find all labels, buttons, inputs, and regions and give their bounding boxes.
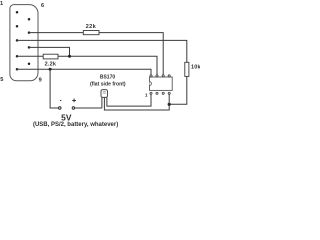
junction dot w3/w4 [68,55,71,58]
pin 6 dot [28,18,31,21]
wire junction to IC bottom pin 4 [168,95,170,105]
U1 pin 3 circle [162,92,164,94]
plus sign [72,99,76,103]
resistor R2 2.2k [43,54,58,59]
U1 pin 1 circle [150,92,152,94]
pin 3 dot [16,39,19,42]
transistor Q1 BS170 body [101,90,108,98]
BS170 left lead [101,97,103,108]
wire 10k bottom to junction [169,76,187,104]
pin 9 dot [28,63,31,66]
svg-text:1: 1 [0,1,3,7]
resistor R1 22k [83,31,99,35]
connector J1 DE-9 outline [10,5,38,81]
BS170 body marking lines [103,92,106,93]
junction dot w5/minus branch [49,68,52,71]
svg-text:6: 6 [41,3,44,9]
pin 7 dot [28,31,31,34]
IC U1 DIP-8 body [150,77,173,90]
svg-text:9: 9 [39,77,42,83]
svg-text:(flat side front): (flat side front) [90,81,126,87]
wire w2 pin3 to 10k resistor [17,40,187,62]
wire w5 pin5 to IC top pin 1 [17,69,151,75]
U1 pin 5 circle [168,75,170,77]
svg-text:2.2k: 2.2k [45,61,57,67]
svg-text:(USB, PS/2, battery, whatever): (USB, PS/2, battery, whatever) [33,122,118,128]
plus terminal [72,107,75,110]
svg-text:5: 5 [0,77,3,83]
svg-text:BS170: BS170 [100,75,116,81]
minus terminal [59,107,62,110]
wire minus branch [50,69,59,108]
U1 pin 2 circle [156,92,158,94]
U1 pin 8 circle [150,75,152,77]
resistor R3 10k [185,62,189,76]
svg-text:22k: 22k [86,24,97,30]
U1 pin 4 circle [168,92,170,94]
wire w1 pin7 to IC top pin 3 [29,33,163,75]
BS170 middle lead wire to junction [104,97,169,110]
pin 5 dot [16,68,19,71]
svg-text:5V: 5V [61,112,72,122]
wire w3 pin8 down to w4 [29,47,70,56]
BS170 right lead wire to IC bottom pin 1 [107,95,151,107]
minus sign [60,99,62,101]
pin 4 dot [16,55,19,58]
junction dot 10k/pin4/middle lead [168,103,171,106]
pin 8 dot [28,46,31,49]
wire w4 pin4 to IC top pin 2 [17,56,157,74]
wire plus terminal to BS170 left lead [75,107,102,109]
U1 pin 7 circle [156,75,158,77]
svg-text:10k: 10k [191,64,200,70]
pin 2 dot [16,25,19,28]
U1 pin1 notch [150,82,152,86]
U1 pin 6 circle [162,75,164,77]
pin 1 dot [16,11,19,14]
svg-text:1: 1 [145,93,148,99]
